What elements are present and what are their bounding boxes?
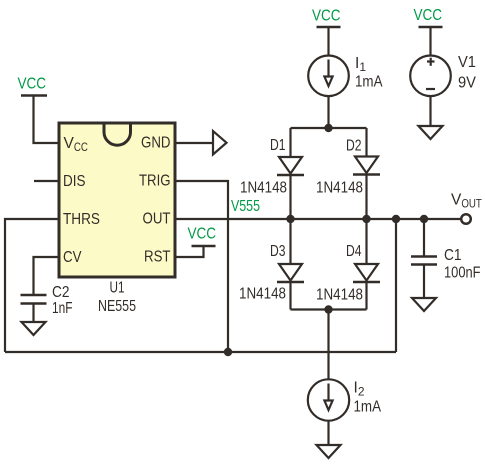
- ground at C2: [22, 322, 46, 335]
- current source I1: [308, 56, 349, 97]
- junction VOUT bridge right: [362, 215, 370, 223]
- wire D3 to bridge bottom: [289, 282, 291, 310]
- svg-text:1N4148: 1N4148: [316, 287, 363, 304]
- wire THRS left and down: [5, 219, 59, 352]
- wire D2 to VOUT rail: [365, 175, 367, 220]
- wire VOUT rail to C1: [423, 219, 425, 257]
- svg-text:1N4148: 1N4148: [240, 180, 287, 197]
- ground at V1: [419, 126, 443, 139]
- current source I2: [308, 379, 349, 420]
- svg-text:DIS: DIS: [63, 173, 86, 190]
- svg-text:VOUT: VOUT: [451, 192, 482, 211]
- svg-text:V555: V555: [231, 198, 260, 215]
- wire VCC to I1: [327, 27, 329, 56]
- svg-text:VCC: VCC: [18, 76, 47, 93]
- junction TRIG-feedback: [224, 348, 232, 356]
- svg-text:THRS: THRS: [63, 211, 100, 228]
- wire D4 to bridge bottom: [365, 282, 367, 310]
- diode D4: [353, 264, 380, 282]
- power VCC at V1: [414, 7, 443, 27]
- svg-text:D4: D4: [346, 243, 362, 260]
- svg-text:1N4148: 1N4148: [316, 180, 363, 197]
- diode D2: [353, 157, 380, 175]
- terminal VOUT: [461, 214, 471, 224]
- svg-text:GND: GND: [141, 135, 171, 152]
- wire top rail to D2: [365, 128, 367, 157]
- wire DIS stub: [34, 180, 59, 182]
- wire bottom feedback net: [5, 351, 396, 353]
- wire V1 to ground: [429, 96, 431, 126]
- svg-text:C2: C2: [52, 284, 70, 301]
- junction bridge top: [324, 124, 332, 132]
- svg-text:V1: V1: [458, 54, 476, 71]
- svg-text:VCC: VCC: [312, 8, 341, 25]
- svg-text:RST: RST: [144, 249, 171, 266]
- svg-text:100nF: 100nF: [444, 265, 481, 282]
- svg-text:CV: CV: [63, 249, 82, 266]
- svg-text:VCC: VCC: [188, 226, 217, 243]
- wire I1 to bridge top: [327, 96, 329, 128]
- svg-text:I1: I1: [355, 55, 366, 74]
- wire bridge top rail: [291, 127, 367, 129]
- svg-text:1nF: 1nF: [52, 300, 73, 317]
- wire VOUT rail to D4: [365, 219, 367, 264]
- ground at I2: [317, 445, 341, 458]
- power VCC rail top-left: [18, 76, 48, 96]
- wire D1 to V555 rail: [289, 175, 291, 219]
- voltage source V1: [410, 56, 451, 97]
- svg-text:1mA: 1mA: [354, 399, 382, 416]
- svg-text:1N4148: 1N4148: [239, 286, 286, 303]
- IC U1 NE555 body: [59, 123, 175, 277]
- wire CV to C2: [34, 257, 60, 295]
- wire I2 to ground: [327, 421, 329, 445]
- power VCC at I1: [312, 8, 341, 28]
- svg-text:NE555: NE555: [98, 298, 136, 315]
- svg-text:D2: D2: [346, 138, 362, 155]
- wire bridge bottom rail: [291, 308, 367, 310]
- wire top rail to D1: [289, 128, 291, 157]
- wire RST to VCC: [175, 246, 204, 257]
- capacitor C1: [411, 257, 437, 299]
- wire bridge bottom to I2: [327, 310, 329, 380]
- junction C1 on VOUT rail: [420, 215, 428, 223]
- wire V555 rail to D3: [289, 219, 291, 264]
- svg-text:TRIG: TRIG: [139, 173, 171, 190]
- capacitor C2: [21, 295, 47, 322]
- junction feedback-VOUT rail: [392, 215, 400, 223]
- wire VCC rail to U1 VCC pin: [34, 96, 60, 144]
- junction V555 bridge left: [286, 215, 294, 223]
- diode D1: [277, 157, 304, 175]
- wire OUT rail node V555 to VOUT: [175, 218, 462, 220]
- svg-text:I2: I2: [354, 380, 365, 399]
- junction bridge bottom: [324, 305, 332, 313]
- svg-text:D3: D3: [270, 243, 286, 260]
- svg-text:D1: D1: [270, 137, 286, 154]
- svg-text:U1: U1: [110, 280, 125, 297]
- svg-text:OUT: OUT: [143, 211, 171, 228]
- svg-text:C1: C1: [444, 247, 462, 264]
- svg-text:VCC: VCC: [414, 7, 443, 24]
- ground at C1: [412, 298, 436, 311]
- power VCC at RST pin: [188, 226, 217, 247]
- wire feedback up to VOUT rail: [395, 219, 397, 352]
- wire TRIG down to feedback: [175, 181, 228, 352]
- wire VCC to V1: [429, 27, 431, 56]
- svg-text:9V: 9V: [458, 75, 477, 92]
- ground at GND pin (arrow right): [175, 131, 227, 155]
- diode D3: [277, 264, 304, 282]
- svg-text:1mA: 1mA: [355, 74, 383, 91]
